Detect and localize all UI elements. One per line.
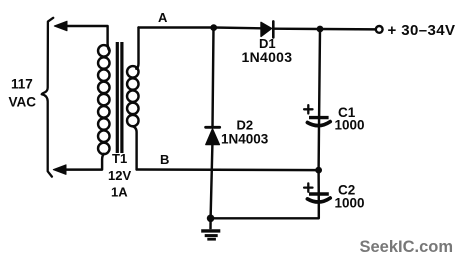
svg-text:B: B — [160, 152, 169, 167]
wire C1 to node B — [317, 125, 320, 170]
capacitor C2 — [304, 183, 330, 202]
svg-text:A: A — [158, 10, 168, 25]
svg-text:117: 117 — [11, 77, 33, 92]
transformer T1 core — [117, 42, 122, 153]
svg-text:12V: 12V — [108, 168, 131, 183]
svg-text:1N4003: 1N4003 — [242, 49, 293, 65]
wire node A down through D2 to ground — [213, 28, 214, 128]
junction D1-C1 dot — [317, 26, 324, 33]
arrow to 117VAC top — [54, 21, 67, 31]
diode D1 — [261, 22, 272, 36]
svg-text:SeekIC.com: SeekIC.com — [360, 238, 454, 256]
ground — [201, 218, 220, 239]
svg-text:1A: 1A — [111, 185, 128, 200]
svg-text:1000: 1000 — [335, 118, 365, 133]
wire secondary bottom lead — [133, 126, 137, 169]
wire D1 to output — [273, 27, 375, 30]
wire C2 bottom to ground wire — [211, 201, 319, 218]
svg-text:1000: 1000 — [335, 196, 365, 211]
junction node A dot — [210, 24, 217, 31]
svg-text:T1: T1 — [112, 151, 127, 166]
arrow to 117VAC bottom — [53, 165, 66, 175]
wire primary bottom lead — [66, 154, 104, 170]
transformer T1 primary winding — [98, 45, 110, 154]
svg-text:+ 30–34V: + 30–34V — [388, 22, 456, 39]
junction B-C1-C2 dot — [315, 167, 322, 174]
svg-text:D2: D2 — [237, 118, 254, 133]
capacitor C1 — [304, 105, 330, 126]
diode D2 — [206, 126, 220, 129]
117 VAC source line with brace — [42, 18, 54, 177]
wire secondary top lead — [136, 28, 138, 69]
output terminal circle — [376, 26, 383, 33]
junction ground dot — [207, 215, 215, 223]
wire node B: secondary bottom to caps — [137, 168, 319, 171]
wire output node down to C1 — [319, 29, 320, 126]
wire node B down to C2 — [317, 170, 320, 202]
svg-text:1N4003: 1N4003 — [221, 132, 269, 147]
svg-text:VAC: VAC — [9, 95, 37, 110]
wire node A top: secondary to D1 — [139, 26, 262, 29]
wire primary top lead — [66, 26, 110, 51]
transformer T1 secondary winding — [127, 66, 139, 126]
